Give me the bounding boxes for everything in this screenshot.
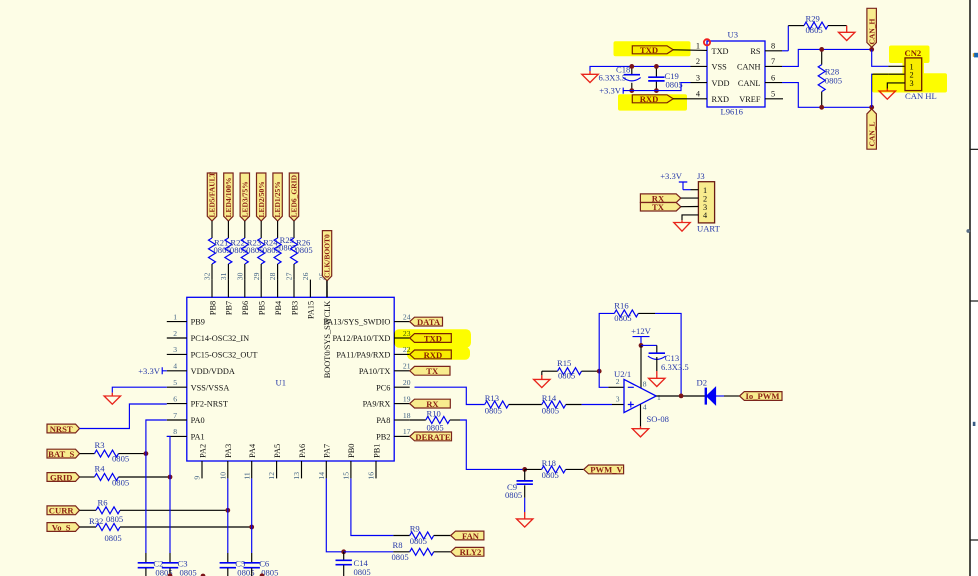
svg-text:R3: R3 [95,440,105,450]
wire TX port to J3 pin3 [681,206,699,208]
resistor R6 [96,507,120,514]
connector J3 body [698,182,714,223]
svg-text:R9: R9 [410,524,420,534]
port NRST [47,424,80,433]
wire R15 to node A [582,370,600,372]
port CAN_H (vertical) [867,8,877,47]
svg-text:2: 2 [616,377,620,386]
svg-text:PA3: PA3 [224,444,233,458]
svg-text:PB8: PB8 [208,301,217,315]
resistor R22 [225,238,232,264]
capacitor C19 leads [655,66,657,90]
svg-text:0805: 0805 [296,245,313,255]
wire PA1 (pin8) down to C3 [167,436,170,553]
wire R4 to PA1 column [119,476,171,478]
U1 pin 10 PA3 (bottom) [227,461,229,478]
svg-text:7: 7 [173,411,177,420]
U1 pin 28 PB4 (top) [277,280,279,298]
svg-text:5: 5 [771,90,775,99]
wire C9 to ground [524,485,526,498]
U1 pin 23 PA12/PA10/TXD [394,337,410,339]
svg-text:0805: 0805 [806,25,823,35]
resistor R28 (between CANH and CANL buses) [821,49,823,107]
wire TXD port to U3 pin 1 [673,49,707,52]
svg-text:21: 21 [403,362,411,371]
U1 pin 14 PA7 (bottom) [325,461,327,478]
resistor R29 [804,22,828,29]
port RX (to J3 pin2) [640,194,680,203]
svg-text:0805: 0805 [505,490,522,500]
svg-text:LED5/FAULT: LED5/FAULT [208,172,217,217]
svg-text:LED1/25%: LED1/25% [273,181,282,217]
U1 pin 8 PA1 [167,435,187,437]
wire CANH up to CANH bus [782,49,872,66]
resistor R8 [393,551,409,553]
port LED3/75% (vertical) [240,173,249,221]
svg-text:+3.3V: +3.3V [660,171,683,181]
junction CANH bus / R28 [819,47,824,52]
wire NRST to U1 pin6 [80,404,167,429]
wire J3 pin4 to ground [682,215,698,220]
svg-text:PB0: PB0 [347,444,356,458]
junction node A (inverting input net) [597,369,602,374]
resistor R4 [95,474,119,481]
svg-text:11: 11 [242,472,251,480]
junction PWM node / C9 [522,467,527,472]
port LED4/100% (vertical) [224,173,233,221]
svg-text:PC14-OSC32_IN: PC14-OSC32_IN [191,334,250,343]
wire R18 to PWM_V port [566,468,584,470]
U1 pin 18 PA8 [394,419,410,421]
wire LED3/75% to R23 [244,221,246,238]
junction BAT_S / PA0 column [144,451,149,456]
highlight over TXD port (pin23) [394,329,471,348]
highlight over RXD port (pin22) [407,347,470,360]
svg-text:20: 20 [403,378,411,387]
junction bottom rail (C3) [168,573,173,576]
resistor R13 [485,401,509,408]
svg-text:0805: 0805 [112,478,129,488]
svg-text:PA0: PA0 [191,416,205,425]
svg-text:PA10/TX: PA10/TX [359,367,391,376]
svg-text:0805: 0805 [112,453,129,463]
wire RX port to J3 pin2 [681,197,699,199]
svg-text:R29: R29 [806,13,820,23]
capacitor C13 (polarized) [649,352,665,354]
wire PA4 (pin11) down to C6 [251,478,253,553]
svg-text:PA5: PA5 [273,444,282,458]
svg-text:19: 19 [403,394,411,403]
wire +12V down to op-amp pin8 [640,345,642,388]
svg-text:6: 6 [173,394,177,403]
U1 pin 15 PB0 (bottom) [350,461,352,478]
resistor R15 [558,368,582,375]
U3 pin-1 dot marker [704,39,710,45]
wire LED6_GRID to R26 [293,221,295,238]
svg-text:8: 8 [643,379,647,388]
svg-text:0805: 0805 [542,405,559,415]
wire node A down to op-amp pin2 [599,371,608,387]
U1 pin 24 PA13/SYS_SWDIO [394,321,410,323]
svg-text:0805: 0805 [180,567,197,576]
port TX (to J3 pin3) [640,203,680,212]
capacitor C14 [343,552,345,560]
border zone tick 3 [971,539,978,541]
U1 pin 22 PA11/PA9/RXD [394,353,410,355]
svg-text:9: 9 [193,476,202,480]
U1 pin 32 PB8 (top) [211,280,213,298]
svg-text:CURR: CURR [49,506,75,516]
IC U3 L9616 body [707,41,765,107]
svg-text:PA15: PA15 [307,301,316,319]
svg-text:5: 5 [173,378,177,387]
junction output node / R16 [679,394,684,399]
svg-text:DATA: DATA [417,317,441,327]
svg-text:SO-08: SO-08 [647,414,669,424]
wire Vo_S to R32 [80,526,97,528]
svg-text:PA7: PA7 [323,444,332,458]
svg-text:GRID: GRID [50,472,72,482]
capacitor C3 [169,553,171,562]
border zone tick 2 [971,300,978,302]
wire op-amp output to D2 [656,395,705,397]
svg-text:0805: 0805 [427,423,444,433]
svg-text:24: 24 [403,312,411,321]
border zone letter mark (middle) [966,229,970,233]
svg-text:2: 2 [696,57,700,66]
border zone letter mark [973,422,976,426]
wire R25 to U1 pin [277,264,279,280]
svg-text:0805: 0805 [485,405,502,415]
U1 pin 6 PF2-NRST [167,403,187,405]
svg-text:PA4: PA4 [248,443,257,458]
wire C13 to ground [656,357,658,371]
svg-text:30: 30 [235,272,244,280]
ground (J3 pin4) [674,220,690,231]
svg-text:PC15-OSC32_OUT: PC15-OSC32_OUT [191,351,258,360]
svg-text:LED3/75%: LED3/75% [240,181,249,217]
wire PA3 (pin10) down to C5 [227,478,229,553]
svg-text:Io_PWM: Io_PWM [746,391,780,401]
svg-text:TXD: TXD [712,47,729,56]
wire R26 to U1 pin [293,264,295,280]
svg-text:R16: R16 [614,301,629,311]
junction +12V / C13 [639,343,644,348]
svg-text:28: 28 [268,272,277,280]
wire LED5/FAULT to R21 [211,221,213,238]
svg-text:0805: 0805 [542,470,559,480]
svg-text:R32: R32 [89,516,103,526]
svg-text:PF2-NRST: PF2-NRST [191,400,228,409]
svg-text:+3.3V: +3.3V [599,86,622,96]
svg-text:PA2: PA2 [198,444,207,458]
svg-text:CANH: CANH [737,63,761,72]
svg-text:VREF: VREF [739,95,761,104]
wire ground to R15 [542,370,558,372]
wire +3.3V rail to U3 pin3 [623,83,690,91]
svg-text:0805: 0805 [614,313,631,323]
svg-text:CANL: CANL [738,79,761,88]
U3 pin 8 RS stub [765,50,782,52]
wire op-amp pin4 to ground [640,404,642,426]
svg-text:BAT_S: BAT_S [48,449,74,459]
ground (U1 VSS) [104,393,120,404]
wire PA7 (pin14) to C14 node [326,478,343,551]
wire BAT_S to R3 [80,453,95,455]
wire C14 node to R8 [344,551,394,553]
svg-text:BOOT0/SYS_SWCLK: BOOT0/SYS_SWCLK [323,301,332,378]
svg-text:7: 7 [771,57,775,66]
wire RS to R29 [787,26,789,51]
svg-text:LED2/50%: LED2/50% [257,181,266,217]
wire RXD port to U3 pin 4 [673,98,707,100]
svg-text:NRST: NRST [50,424,73,434]
svg-text:U1: U1 [276,378,287,388]
resistor R9 [393,535,409,537]
junction Vo_S / PA4 column [249,525,254,530]
svg-text:TX: TX [652,202,665,212]
junction bottom rail (C5 right) [260,573,265,576]
svg-text:R15: R15 [557,358,571,368]
junction bottom rail mid [201,574,206,576]
U1 pin 13 PA6 (bottom) [301,461,303,478]
svg-text:D2: D2 [697,378,708,388]
wire R23 to U1 pin [244,264,246,280]
wire GRID to R4 [80,476,95,478]
svg-text:0805: 0805 [105,533,122,543]
wire R9 to FAN port [434,535,451,537]
U1 pin 3 PC15-OSC32_OUT [167,353,187,355]
svg-text:CAN_H: CAN_H [867,19,876,45]
svg-text:6.3X3.5: 6.3X3.5 [661,362,689,372]
wire node A up to R16 [599,313,614,371]
svg-text:PB1: PB1 [372,444,381,458]
C18 bottom lead + junction on +3.3V rail [631,83,633,91]
highlight over CN2 pins right [872,73,947,92]
svg-text:0805: 0805 [354,567,371,576]
wire R8 to RLY2 port [434,551,451,553]
port TX (pin 21) [410,366,450,375]
svg-text:14: 14 [317,472,326,480]
svg-text:J3: J3 [697,171,705,181]
svg-text:6: 6 [771,73,775,82]
port TXD (pin 23) [410,334,452,343]
port FAN [451,531,484,540]
svg-text:1: 1 [696,42,700,51]
U1 pin 1 PB9 [167,321,187,323]
svg-text:VDD: VDD [712,79,730,88]
svg-text:31: 31 [219,272,228,280]
svg-text:PB7: PB7 [225,301,234,315]
wire R16 to output node [638,312,655,314]
svg-text:0805: 0805 [825,75,842,85]
svg-text:8: 8 [771,42,775,51]
U1 pin 12 PA5 (bottom) [276,461,278,478]
svg-text:RS: RS [750,47,761,56]
svg-text:18: 18 [403,411,411,420]
svg-text:UART: UART [697,224,721,234]
capacitor C2 [145,553,147,562]
svg-text:+12V: +12V [631,326,651,336]
U1 pin 11 PA4 (bottom) [251,461,253,478]
svg-text:VDD/VDDA: VDD/VDDA [191,367,235,376]
svg-text:0805: 0805 [392,552,409,562]
svg-text:RLY2: RLY2 [460,547,482,557]
svg-text:29: 29 [252,272,261,280]
wire R10 down to PWM node [450,419,460,421]
wire R29 to ground [828,25,847,27]
svg-text:DERATE: DERATE [415,432,450,442]
svg-text:PB6: PB6 [241,301,250,315]
wire R14 to op-amp pin3 [566,404,582,406]
U1 pin 25 BOOT0/SYS_SWCLK (top) [326,280,328,298]
svg-text:PA12/PA10/TXD: PA12/PA10/TXD [332,334,390,343]
resistor R25 [274,238,281,264]
svg-text:1: 1 [657,393,661,402]
svg-text:PWM_V: PWM_V [590,465,623,475]
port DATA (pin 24) [410,317,443,326]
svg-text:16: 16 [367,472,376,480]
svg-text:VSS/VSSA: VSS/VSSA [191,383,230,392]
ground (VSS net) [582,71,598,83]
svg-text:3: 3 [696,73,700,82]
wire LED4/100% to R22 [227,221,229,238]
wire R21 to U1 pin [211,264,213,280]
capacitor C18 (polarized) plates [624,74,640,76]
U1 pin 29 PB5 (top) [260,280,262,298]
ground (C9) [517,512,533,527]
highlight over RXD port [618,94,687,110]
port CAN_L (vertical) [867,109,877,149]
port LED1/25% (vertical) [273,173,282,221]
wire R13 to R14 [509,404,542,406]
resistor R10 (pin 18) [410,419,426,421]
svg-text:R18: R18 [542,458,556,468]
capacitor C18 top lead + junction [631,66,633,74]
U3 pin 7 CANH stub [765,65,782,67]
capacitor C5 [227,553,229,562]
U1 pin 21 PA10/TX [394,370,410,372]
svg-text:PB9: PB9 [191,318,205,327]
svg-text:R10: R10 [427,408,441,418]
svg-text:17: 17 [403,427,411,436]
svg-text:0805: 0805 [106,514,123,524]
wire LED2/50% to R24 [260,221,262,238]
IC U1 body [187,297,394,461]
wire R32 to PA4 column [120,526,252,528]
resistor R18 [542,466,566,473]
svg-text:PA6: PA6 [298,444,307,458]
svg-text:R13: R13 [485,393,499,403]
U1 pin 26 PA15 (top) [309,280,311,298]
connector CN2 body [905,58,922,91]
svg-text:PA8: PA8 [376,416,390,425]
border zone tick 1 [971,148,978,150]
port PWM_V [584,465,624,474]
wire R3 to PA0 column [119,453,146,455]
port Vo_S [47,523,80,532]
port GRID [47,473,80,482]
U1 pin 27 PB3 (top) [293,280,295,298]
svg-text:0805: 0805 [666,80,683,90]
svg-text:FAN: FAN [462,531,480,541]
capacitor C6 [251,553,253,562]
wire CLK/BOOT0 to pin 25 [326,281,328,298]
U1 pin 7 PA0 [167,419,187,421]
U3 pin 6 CANL stub [765,82,782,84]
wire PA0 (pin7) down to C2 [146,420,167,553]
svg-text:R6: R6 [98,497,109,507]
U1 pin 19 PA9/RX [394,403,410,405]
svg-text:10: 10 [218,472,227,480]
svg-text:3: 3 [173,345,177,354]
svg-text:PB4: PB4 [274,300,283,315]
ground (op-amp pin4) [632,426,648,437]
wire D2 to Io_PWM port [716,395,724,397]
op-amp plus sign [628,402,634,408]
resistor R21 [209,238,216,264]
resistor R3 [95,450,119,457]
svg-text:CLK/BOOT0: CLK/BOOT0 [323,234,332,278]
U1 pin 20 PC6 [394,386,410,388]
resistor R23 [241,238,248,264]
wire CN2 pin3 to ground [887,83,905,89]
svg-text:PA13/SYS_SWDIO: PA13/SYS_SWDIO [323,318,390,327]
svg-text:R4: R4 [95,464,106,474]
svg-text:4: 4 [173,362,177,371]
svg-text:15: 15 [342,472,351,480]
junction C14 node [341,549,346,554]
capacitor C19 plates [648,77,664,81]
U1 pin 30 PB6 (top) [244,280,246,298]
resistor R26 [291,238,298,264]
svg-text:LED6_GRID: LED6_GRID [290,174,299,217]
cropped element at right edge (blue/orange mark) [974,53,978,58]
port LED5/FAULT (vertical) [207,173,216,221]
svg-text:0805: 0805 [410,536,427,546]
svg-text:PA11/PA9/RXD: PA11/PA9/RXD [336,351,390,360]
svg-text:R8: R8 [393,540,403,550]
U1 pin 2 PC14-OSC32_IN [167,337,187,339]
wire R22 to U1 pin [227,264,229,280]
U1 pin 9 PA2 (bottom) [201,461,203,478]
wire CANL bus to CN2 pin2 [872,74,889,107]
port CLK/BOOT0 (vertical) [322,231,331,281]
wire R24 to U1 pin [260,264,262,280]
ground (C13) [649,378,665,386]
svg-text:U3: U3 [728,30,739,40]
junction GRID / PA1 column [168,475,173,480]
port RX (pin 19) [410,399,451,408]
svg-text:TX: TX [426,366,439,376]
svg-text:1: 1 [173,312,177,321]
sheet margin (white) [971,0,978,576]
svg-text:32: 32 [203,272,212,280]
U1 pin 31 PB7 (top) [227,280,229,298]
svg-text:13: 13 [292,472,301,480]
port BAT_S [47,449,80,458]
wire U1 VSS to ground [112,387,167,393]
port RXD (pin 22) [410,350,452,359]
resistor R16 (feedback) [614,310,638,317]
wire PC6 (pin20) to R13 [415,387,485,404]
svg-text:PB3: PB3 [290,301,299,315]
op-amp U2/1 [624,379,656,412]
svg-text:RXD: RXD [712,95,730,104]
ground (CN2 pin3) [879,89,895,100]
wire PB0 (pin15) to R9 [351,478,394,535]
svg-text:CAN_L: CAN_L [867,121,876,146]
